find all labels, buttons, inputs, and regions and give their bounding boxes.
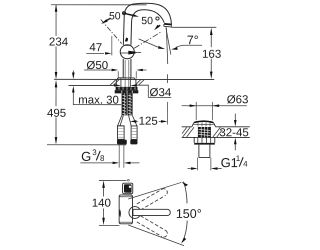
lever pivot mark on neck <box>125 37 128 41</box>
stud thread texture <box>123 95 132 114</box>
valve threaded body <box>198 127 211 137</box>
svg-text:Ø63: Ø63 <box>227 94 249 106</box>
extension line hose end level <box>47 144 126 146</box>
svg-text:495: 495 <box>47 108 66 120</box>
spout root circle <box>129 207 141 219</box>
hose end cap right <box>130 140 137 145</box>
deck hatch left of base <box>110 80 119 86</box>
threaded stud right <box>127 93 132 115</box>
7 deg stream line <box>166 28 171 55</box>
svg-text:3: 3 <box>92 148 97 157</box>
svg-text:G: G <box>81 149 91 164</box>
max.30 upper arrow <box>72 71 74 73</box>
hose transition lines <box>118 116 137 126</box>
aerator tip <box>164 23 171 26</box>
arrow down at deck (234) <box>55 72 58 79</box>
valve cap <box>192 121 216 127</box>
svg-text:32-45: 32-45 <box>219 127 248 139</box>
top view body <box>119 195 132 224</box>
top view lever mark <box>127 179 129 181</box>
swivel arc 150 bottom part <box>182 221 187 243</box>
deck hatch right of base <box>135 80 144 86</box>
faucet column right edge <box>131 10 139 78</box>
crescent on body left edge <box>119 209 121 217</box>
spout tip extension line <box>171 26 216 28</box>
7 deg vertical reference line <box>166 28 167 65</box>
svg-text:140: 140 <box>92 198 111 210</box>
dim arrows G3/8 <box>80 145 139 168</box>
dim arrows diameter 34 <box>114 84 171 97</box>
dim arrows G1 1/4 <box>188 167 222 170</box>
locknut band <box>115 90 139 93</box>
supply pipes inside column <box>125 60 129 87</box>
arrow down at hose end (495) <box>55 137 58 144</box>
swivel extent line upper <box>128 182 181 199</box>
svg-text:Ø34: Ø34 <box>150 87 172 99</box>
svg-text:150°: 150° <box>176 207 202 221</box>
hose right <box>131 126 137 140</box>
deck top line <box>54 78 214 80</box>
drain deck hatch right <box>213 127 222 137</box>
valve locknut <box>194 137 215 143</box>
dim 32-45 lower arrow <box>234 138 237 151</box>
max.30 lower arrow and leader <box>72 86 75 93</box>
svg-text:max. 30: max. 30 <box>78 95 119 107</box>
svg-text:125: 125 <box>139 116 158 128</box>
svg-text:50: 50 <box>109 10 121 22</box>
svg-text:234: 234 <box>49 37 69 49</box>
spout inner curve <box>139 10 164 23</box>
dimension line 163 <box>210 35 212 72</box>
lever ball <box>120 45 134 59</box>
7 deg right leader with arrow <box>176 45 183 47</box>
svg-text:163: 163 <box>202 49 221 61</box>
hose end cap left <box>117 140 127 145</box>
drain deck hatch left <box>182 127 194 137</box>
dim arrows 125 <box>130 102 168 125</box>
mounting washer band <box>116 87 138 90</box>
7 deg left leader with arrow <box>139 39 158 47</box>
arrow up at spout top <box>55 4 58 11</box>
tailpiece thread extension lines <box>198 158 211 171</box>
lever wedge <box>128 51 135 55</box>
lever swing dash line left <box>101 20 122 44</box>
solid spout top view <box>133 209 170 215</box>
ball top joint <box>123 44 131 46</box>
dim 32-45 upper arrow <box>234 114 237 127</box>
faucet column left edge <box>123 4 134 79</box>
svg-text:8: 8 <box>100 154 105 163</box>
valve tailpiece <box>199 145 210 158</box>
threaded stud left <box>122 93 127 115</box>
escutcheon base <box>116 78 136 85</box>
top view lever <box>123 183 133 194</box>
dim line diameter 63 <box>182 102 247 120</box>
swivel extent line lower <box>128 225 184 246</box>
drain deck bottom line <box>182 136 250 138</box>
vertical dimension line 234/495 <box>55 5 57 138</box>
dim arrow 47 <box>86 36 112 55</box>
label G1 1/4 <box>221 154 249 170</box>
ball mid line <box>120 52 134 54</box>
deck bottom line <box>69 84 115 86</box>
lever swing dash line right <box>134 32 160 48</box>
svg-text:47: 47 <box>89 42 102 54</box>
drain deck top line <box>182 126 250 128</box>
swivel arc 150 top part <box>184 182 188 204</box>
leader arrow from label to right swing line <box>158 25 160 26</box>
hose left <box>117 126 124 140</box>
label G3/8 <box>81 148 105 164</box>
svg-text:1: 1 <box>236 154 241 163</box>
extension line spout apex level <box>51 4 146 6</box>
leader arrow from label to left swing line <box>106 19 110 22</box>
dashed spout lower <box>137 216 167 237</box>
svg-text:4: 4 <box>243 159 248 168</box>
arrow up at deck (495) <box>55 80 58 87</box>
threaded shank through deck <box>121 78 130 87</box>
svg-text:50: 50 <box>141 15 153 27</box>
leader arrow from label toward spout <box>122 13 133 16</box>
dim line 140 <box>99 181 127 226</box>
dashed spout upper <box>137 189 167 210</box>
dim arrows base diameter 50 <box>84 69 147 79</box>
spout outer curve <box>135 3 172 24</box>
